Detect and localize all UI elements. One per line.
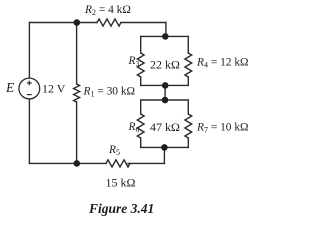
svg-text:22 kΩ: 22 kΩ xyxy=(150,57,180,71)
wire left branch vertical below source xyxy=(28,99,30,163)
resistor R6 zigzag xyxy=(137,114,144,138)
resistor R2 zigzag xyxy=(97,19,121,26)
resistor R1 zigzag xyxy=(74,84,80,102)
wire top rail right segment xyxy=(121,22,166,24)
resistor R7 zigzag xyxy=(185,114,192,138)
node junction dot box2 bottom xyxy=(161,144,168,151)
wire box2 left branch upper lead xyxy=(140,100,142,114)
wire bottom rail left segment xyxy=(29,162,106,164)
svg-text:R6: R6 xyxy=(128,121,140,134)
svg-text:15 kΩ: 15 kΩ xyxy=(106,175,136,189)
svg-text:E: E xyxy=(5,80,15,95)
wire box1 right branch upper lead xyxy=(187,36,189,53)
node junction dot box1 bottom xyxy=(162,82,169,89)
wire box2 right branch upper lead xyxy=(187,100,189,114)
wire box2 top rail xyxy=(141,99,189,101)
wire connector box1 to box2 xyxy=(164,85,166,100)
wire box1 right branch lower lead xyxy=(187,77,189,85)
svg-text:R7 = 10 kΩ: R7 = 10 kΩ xyxy=(196,121,249,134)
wire box1 left branch lower lead xyxy=(140,77,142,85)
svg-text:R1 = 30 kΩ: R1 = 30 kΩ xyxy=(83,86,136,99)
svg-text:R5: R5 xyxy=(108,144,120,157)
svg-text:Figure 3.41: Figure 3.41 xyxy=(88,201,154,216)
voltage source minus terminal xyxy=(27,94,32,96)
node junction dot box1 top xyxy=(162,33,169,40)
wire box2 left branch lower lead xyxy=(140,138,142,147)
svg-text:47 kΩ: 47 kΩ xyxy=(150,120,180,134)
wire corner down to box1 xyxy=(165,23,167,37)
voltage source plus terminal xyxy=(27,81,32,86)
wire left branch vertical above source xyxy=(28,23,30,79)
node junction dot top of R1 branch xyxy=(74,19,81,26)
svg-text:R2 = 4 kΩ: R2 = 4 kΩ xyxy=(84,4,131,17)
wire box1 bottom rail xyxy=(141,84,189,86)
wire box2 right branch lower lead xyxy=(187,138,189,147)
voltage source E circle xyxy=(19,78,40,99)
wire bottom rail right segment xyxy=(128,162,164,164)
resistor R5 zigzag xyxy=(106,160,130,167)
wire middle branch upper lead xyxy=(76,23,78,85)
svg-text:12 V: 12 V xyxy=(42,82,66,96)
resistor R4 zigzag xyxy=(185,53,192,77)
node junction dot box2 top xyxy=(162,97,169,104)
wire box2 bottom rail xyxy=(141,146,189,148)
wire box1 top rail xyxy=(141,35,189,37)
wire box1 left branch upper lead xyxy=(140,36,142,53)
wire top rail left segment xyxy=(29,22,97,24)
wire corner up to box2 xyxy=(163,147,165,163)
svg-text:R4 = 12 kΩ: R4 = 12 kΩ xyxy=(196,56,249,69)
svg-text:R3: R3 xyxy=(128,55,140,68)
node junction dot bottom of R1 branch xyxy=(74,160,81,167)
resistor R3 zigzag xyxy=(137,53,144,77)
wire middle branch lower lead xyxy=(76,102,78,163)
